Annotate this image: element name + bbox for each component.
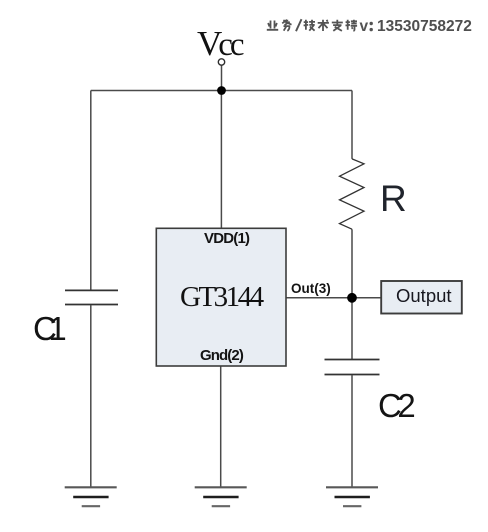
- svg-text:13530758272: 13530758272: [377, 18, 472, 35]
- svg-text:v: v: [360, 18, 369, 35]
